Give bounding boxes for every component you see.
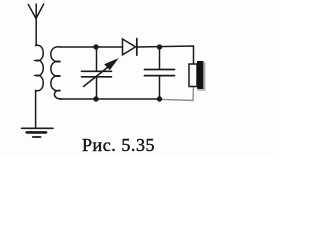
wire (bottom right, to earphone) xyxy=(160,87,194,101)
wire (bottom: coil to C2 junction) xyxy=(61,98,160,100)
node A (top left junction) xyxy=(93,44,98,49)
wire (top: diode to corner) xyxy=(137,46,194,64)
diode VD1 xyxy=(123,39,137,56)
inductor L2 (tank coil) xyxy=(51,47,62,99)
variable capacitor C1 xyxy=(82,47,118,99)
antenna W1 xyxy=(28,4,43,46)
caption xyxy=(82,135,155,156)
wire (coil to ground) xyxy=(35,91,37,129)
earphone BF1 xyxy=(189,61,205,90)
ground xyxy=(22,128,54,137)
capacitor C2 xyxy=(145,47,175,99)
node B (top right junction) xyxy=(157,44,162,49)
node C (bottom left junction) xyxy=(93,96,98,101)
inductor L1 (antenna coil) xyxy=(36,45,44,91)
wire (top: coil to diode) xyxy=(61,46,123,48)
node D (bottom right junction) xyxy=(157,96,162,101)
